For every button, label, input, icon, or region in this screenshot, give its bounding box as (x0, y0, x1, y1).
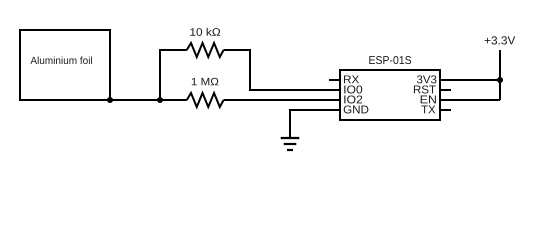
pin label EN (421, 96, 436, 104)
pin label IO2 (344, 95, 362, 103)
wire: branch node up and right to R1 (160, 50, 187, 100)
label 10 kΩ (190, 28, 220, 36)
pin label 3V3 (417, 75, 437, 83)
resistor R1 10 kΩ (187, 43, 224, 57)
+3.3V supply rail (499, 50, 501, 100)
wire: GND pin to ground (290, 110, 340, 137)
label 1 MΩ (192, 78, 219, 86)
ESP-01S module U1 body (340, 70, 440, 120)
pin TX stub (440, 109, 451, 111)
pin RST stub (440, 89, 451, 91)
aluminium foil label (30, 56, 92, 64)
ESP-01S title (369, 56, 411, 64)
resistor R2 1 MΩ (187, 93, 224, 107)
wire: 3V3 pin to +3.3V rail (440, 79, 500, 81)
pin label TX (421, 106, 435, 114)
wire: foil node to resistor R2 (110, 99, 187, 101)
pin label RST (414, 85, 436, 93)
wire: R2 to IO2 pin (224, 99, 340, 101)
pin label GND (344, 105, 369, 113)
pin label IO0 (344, 85, 362, 93)
pin RX stub (329, 79, 340, 81)
junction dot on +3.3V rail (497, 77, 503, 83)
junction dot at foil terminal (107, 97, 113, 103)
+3.3V label (485, 36, 516, 44)
junction dot at R1/R2 branch node (157, 97, 163, 103)
aluminium foil electrode plate (20, 30, 110, 100)
ground symbol (281, 138, 300, 150)
wire: R1 to IO0 pin (224, 50, 340, 90)
wire: EN pin to +3.3V rail (440, 99, 500, 101)
pin label RX (344, 75, 359, 83)
